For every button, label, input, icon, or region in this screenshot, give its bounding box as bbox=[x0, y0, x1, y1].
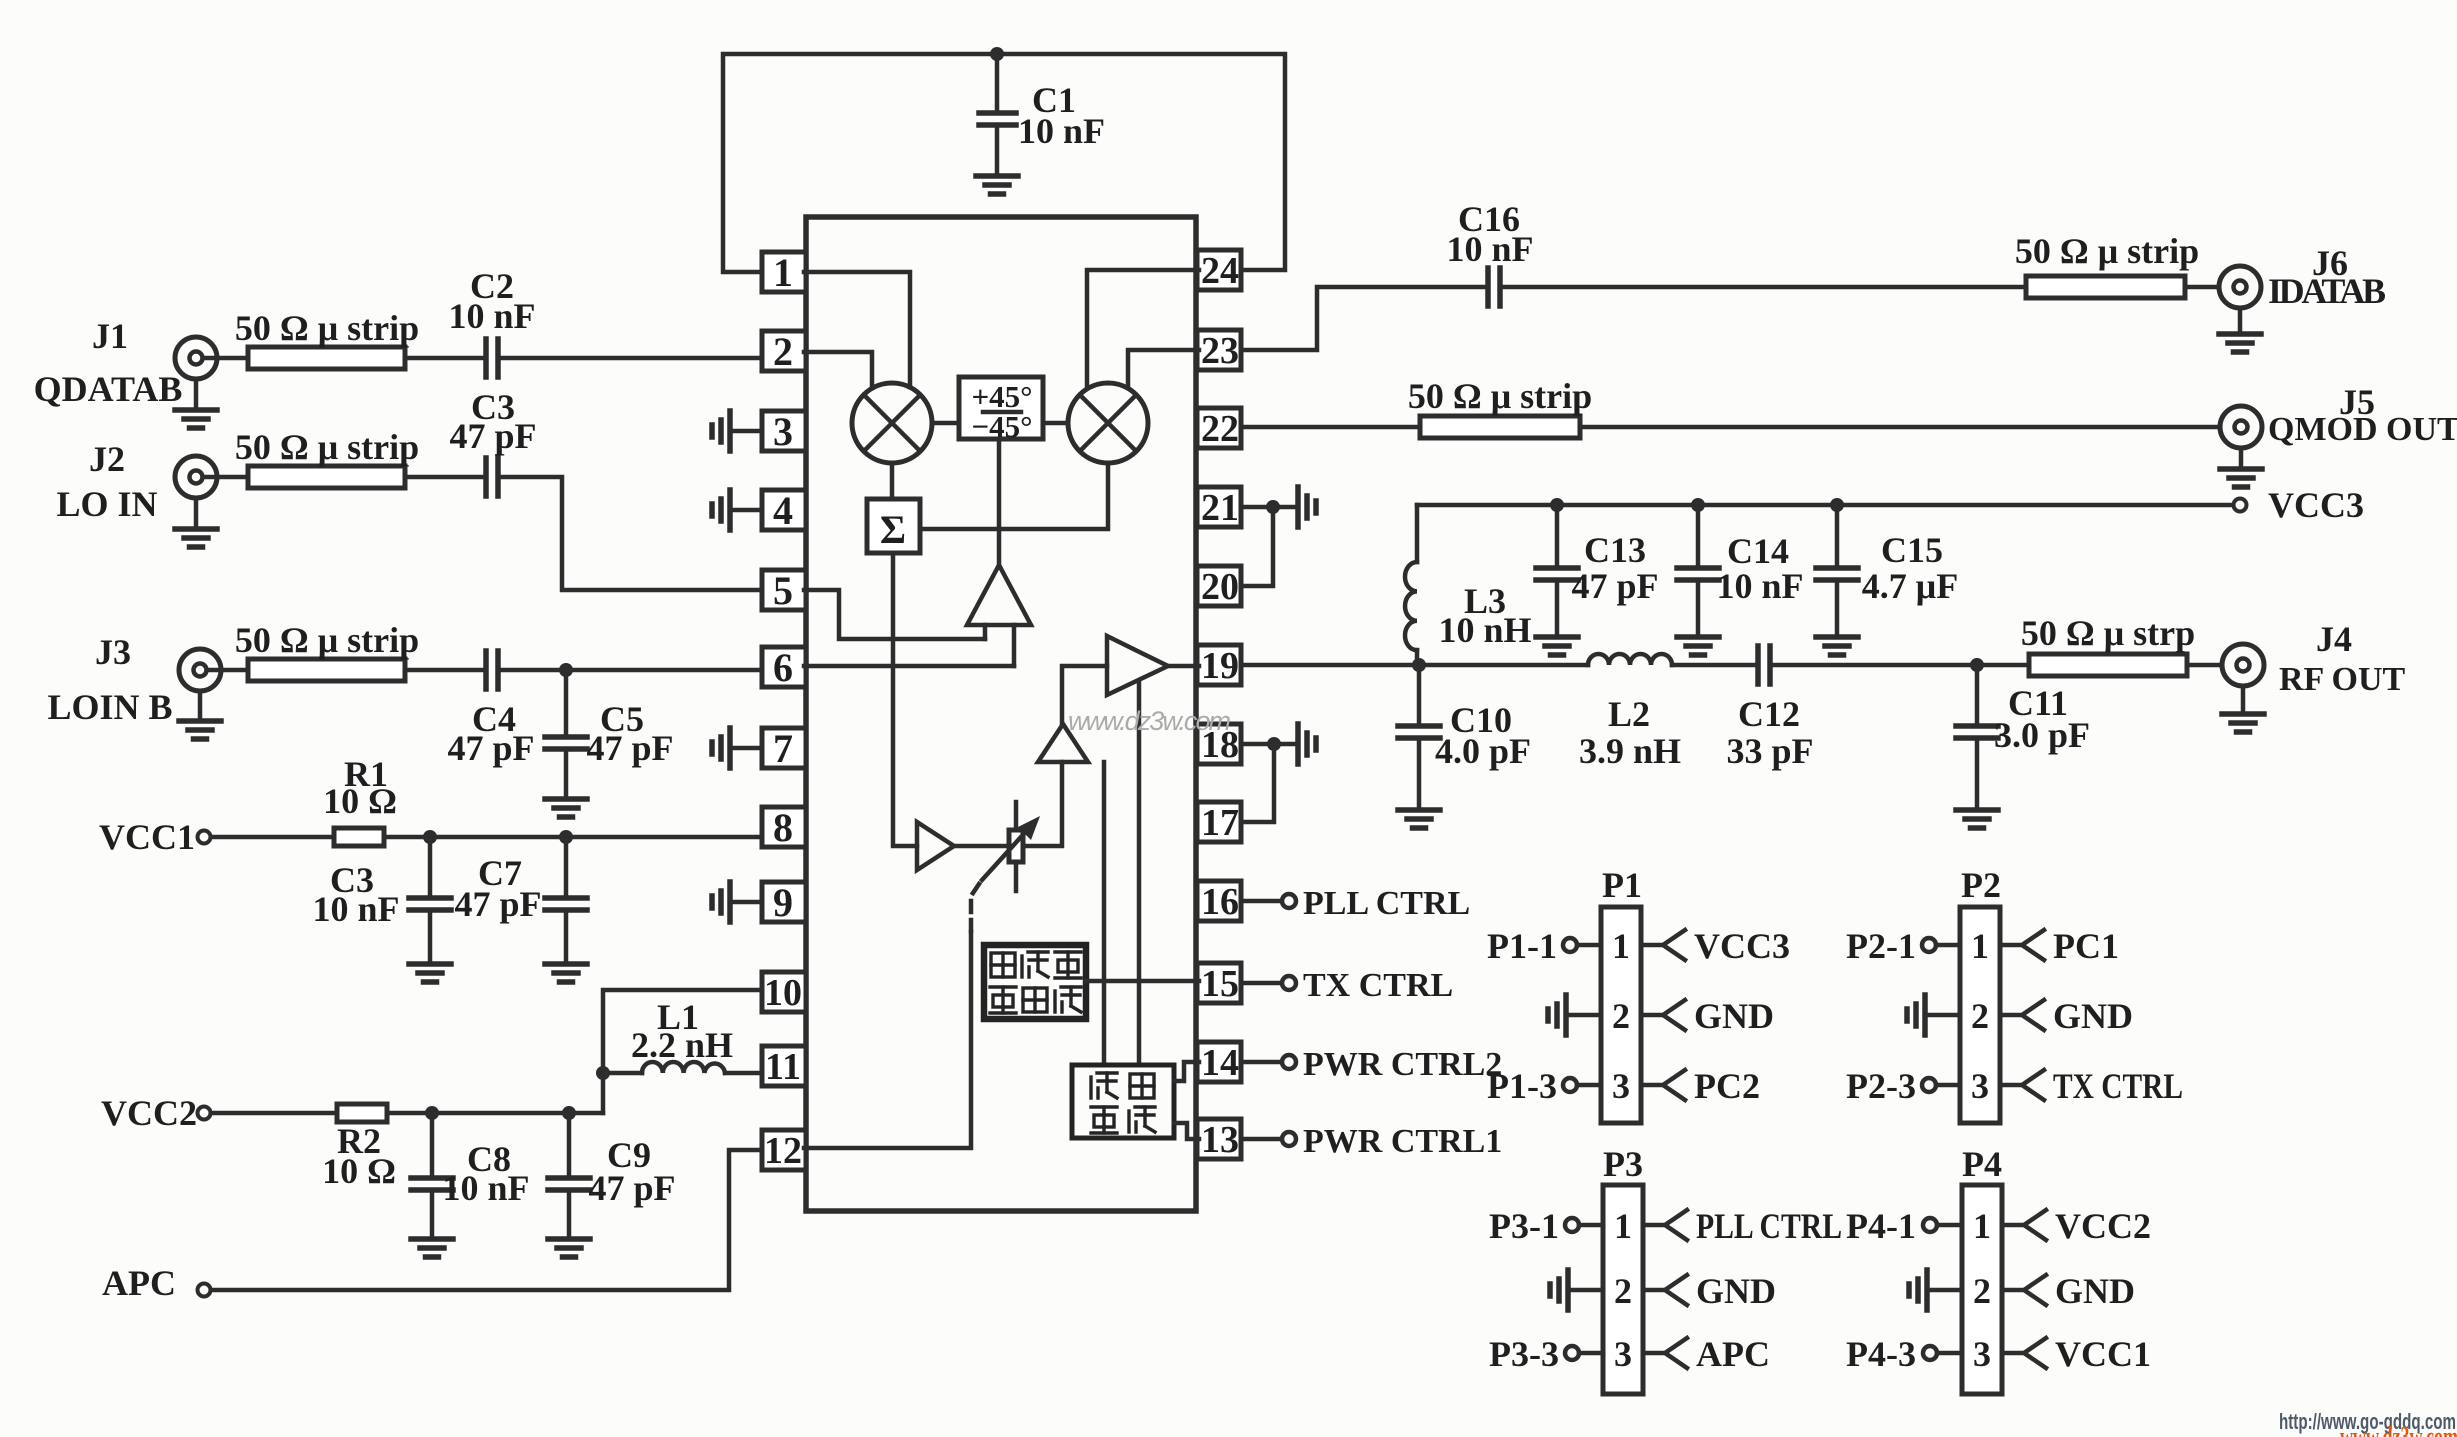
pin P4-2 GND bbox=[2002, 1288, 2024, 1293]
wire pin 1 internal bbox=[804, 272, 910, 387]
svg-text:13: 13 bbox=[1201, 1119, 1239, 1161]
pin P1-2 GND bbox=[1641, 1013, 1663, 1018]
terminal VCC3 bbox=[1417, 503, 2233, 508]
wire A4 out to pin 19 bbox=[1168, 664, 1199, 669]
svg-text:21: 21 bbox=[1201, 487, 1239, 529]
svg-text:6: 6 bbox=[773, 645, 793, 690]
ground P3-2 bbox=[1550, 1270, 1568, 1310]
pin 9 bbox=[762, 882, 806, 922]
microstrip 50ohm J2 bbox=[248, 466, 405, 488]
wire bbox=[498, 356, 762, 361]
capacitor C4 bbox=[483, 651, 489, 689]
wire pin 22 to J5 bbox=[1241, 425, 1420, 430]
capacitor C11 bbox=[1975, 665, 1980, 724]
node C11 bbox=[1970, 658, 1984, 672]
wire top supply loop bbox=[723, 54, 1285, 272]
wire mixers to phase box bbox=[932, 421, 1068, 426]
node C14 bbox=[1691, 498, 1705, 512]
svg-text:1: 1 bbox=[1973, 1206, 1991, 1246]
inductor L2 bbox=[1588, 654, 1672, 665]
svg-text:P4-1: P4-1 bbox=[1846, 1206, 1916, 1246]
svg-text:3: 3 bbox=[1971, 1066, 1989, 1106]
svg-text:50 Ω μ strip: 50 Ω μ strip bbox=[1408, 376, 1592, 416]
IC U1 body bbox=[806, 217, 1196, 1211]
node C1 top bbox=[990, 47, 1004, 61]
ground bbox=[545, 799, 587, 817]
svg-text:50 Ω μ strip: 50 Ω μ strip bbox=[2015, 231, 2199, 271]
node C15 bbox=[1830, 498, 1844, 512]
pin 17 bbox=[1197, 802, 1241, 842]
wire phase box down to amp bbox=[997, 439, 1002, 565]
wire pin 23 internal bbox=[1128, 350, 1199, 388]
pin 7 bbox=[762, 728, 806, 768]
wire pin18 to pin17 bbox=[1241, 744, 1274, 822]
svg-text:3.0 pF: 3.0 pF bbox=[1994, 715, 2090, 755]
svg-text:2: 2 bbox=[1973, 1271, 1991, 1311]
wire pin 6 internal bbox=[804, 664, 1014, 669]
svg-text:10 nF: 10 nF bbox=[448, 296, 535, 336]
svg-text:P3-3: P3-3 bbox=[1489, 1334, 1559, 1374]
wire sigma down bbox=[893, 553, 917, 846]
wire bbox=[2185, 285, 2233, 290]
wire bbox=[1580, 425, 2234, 430]
svg-text:J3: J3 bbox=[95, 632, 131, 672]
svg-text:VCC1: VCC1 bbox=[99, 817, 195, 857]
svg-text:P3-1: P3-1 bbox=[1489, 1206, 1559, 1246]
svg-text:47 pF: 47 pF bbox=[588, 1168, 675, 1208]
svg-text:3: 3 bbox=[1614, 1334, 1632, 1374]
ground bbox=[2239, 448, 2244, 467]
svg-text:50 Ω μ strp: 50 Ω μ strp bbox=[2021, 613, 2195, 653]
wire bbox=[405, 668, 486, 673]
svg-text:3: 3 bbox=[773, 409, 793, 454]
pin 18 bbox=[1197, 724, 1241, 764]
pin P1-3 PC2 bbox=[1641, 1083, 1663, 1088]
pin P4-3 VCC1 bbox=[2002, 1351, 2024, 1356]
microstrip 50ohm J1 bbox=[248, 347, 405, 369]
ground bbox=[411, 1239, 453, 1257]
ground bbox=[194, 498, 199, 527]
svg-text:14: 14 bbox=[1201, 1042, 1239, 1084]
wire power ctrl B bbox=[1137, 681, 1142, 1065]
pin 20 bbox=[1197, 566, 1241, 606]
svg-text:9: 9 bbox=[773, 880, 793, 925]
svg-text:4.7 μF: 4.7 μF bbox=[1862, 566, 1958, 606]
node C5 bbox=[559, 663, 573, 677]
svg-text:TX CTRL: TX CTRL bbox=[1303, 967, 1453, 1004]
wire bias to pin 15 bbox=[1086, 979, 1199, 984]
wire pin 2 internal bbox=[804, 352, 872, 388]
svg-text:1: 1 bbox=[1614, 1206, 1632, 1246]
svg-text:−45°: −45° bbox=[971, 409, 1032, 444]
pin P4-1 VCC2 bbox=[2002, 1223, 2024, 1228]
capacitor C9 bbox=[567, 1113, 572, 1176]
ground pin 9 bbox=[733, 900, 762, 905]
op-amp A4 (right, output) bbox=[1107, 636, 1168, 695]
svg-text:2.2 nH: 2.2 nH bbox=[631, 1025, 733, 1065]
svg-text:50 Ω μ strip: 50 Ω μ strip bbox=[235, 620, 419, 660]
capacitor C12 bbox=[1755, 646, 1761, 684]
svg-text:C12: C12 bbox=[1738, 694, 1800, 734]
svg-text:GND: GND bbox=[2055, 1271, 2135, 1311]
svg-text:3.9 nH: 3.9 nH bbox=[1579, 731, 1681, 771]
op-amp A1 (up) bbox=[967, 565, 1031, 625]
svg-text:12: 12 bbox=[764, 1130, 802, 1172]
wire bbox=[405, 356, 486, 361]
svg-text:2: 2 bbox=[1614, 1271, 1632, 1311]
svg-text:3: 3 bbox=[1973, 1334, 1991, 1374]
capacitor C1 bbox=[995, 54, 1000, 111]
svg-text:APC: APC bbox=[1696, 1334, 1770, 1374]
wire bbox=[1770, 663, 2029, 668]
summer sigma box bbox=[867, 499, 920, 553]
node pin 21 bbox=[1266, 500, 1280, 514]
pin 23 bbox=[1197, 330, 1241, 370]
svg-text:1: 1 bbox=[773, 250, 793, 295]
svg-text:11: 11 bbox=[765, 1046, 801, 1088]
svg-text:10 Ω: 10 Ω bbox=[323, 781, 397, 821]
pin 3 bbox=[762, 411, 806, 451]
svg-text:2: 2 bbox=[1612, 996, 1630, 1036]
svg-text:P4-3: P4-3 bbox=[1846, 1334, 1916, 1374]
pin P3-2 GND bbox=[1643, 1288, 1665, 1293]
svg-text:C14: C14 bbox=[1727, 531, 1789, 571]
svg-text:PLL CTRL: PLL CTRL bbox=[1303, 885, 1470, 922]
pin 8 bbox=[762, 807, 806, 847]
svg-text:VCC2: VCC2 bbox=[101, 1093, 197, 1133]
svg-text:10 Ω: 10 Ω bbox=[322, 1151, 396, 1191]
pin P1-1 VCC3 bbox=[1641, 943, 1663, 948]
wire bbox=[203, 475, 248, 480]
svg-text:47 pF: 47 pF bbox=[454, 884, 541, 924]
pin P2-2 GND bbox=[2000, 1013, 2022, 1018]
ground bbox=[1536, 637, 1578, 655]
ground bbox=[1816, 637, 1858, 655]
capacitor C2 bbox=[483, 339, 489, 377]
svg-text:10 nF: 10 nF bbox=[312, 889, 399, 929]
svg-text:3: 3 bbox=[1612, 1066, 1630, 1106]
svg-text:TX CTRL: TX CTRL bbox=[2053, 1066, 2183, 1106]
wire to pin 8 bbox=[384, 835, 762, 840]
ground bbox=[976, 176, 1018, 194]
ground bbox=[194, 379, 199, 408]
wire to pin 6 bbox=[498, 668, 762, 673]
svg-text:P2-3: P2-3 bbox=[1846, 1066, 1916, 1106]
wire APC to pin 12 bbox=[211, 1150, 762, 1290]
DC bias box bbox=[984, 945, 1086, 1019]
svg-text:www.dz3w.com: www.dz3w.com bbox=[1068, 706, 1231, 736]
pin 11 bbox=[762, 1046, 806, 1086]
svg-text:15: 15 bbox=[1201, 963, 1239, 1005]
dashed link to pin 12 bbox=[969, 884, 979, 899]
pin 16 bbox=[1197, 881, 1241, 921]
svg-text:VCC1: VCC1 bbox=[2055, 1334, 2151, 1374]
wire bbox=[207, 668, 248, 673]
svg-text:33 pF: 33 pF bbox=[1726, 731, 1813, 771]
pin 21 bbox=[1197, 487, 1241, 527]
wire power box to pin 13 bbox=[1174, 1123, 1199, 1139]
wire A3 out bbox=[1062, 666, 1107, 724]
pin 14 bbox=[1197, 1042, 1241, 1082]
wire attenuator out bbox=[1023, 762, 1062, 846]
variable attenuator bbox=[1014, 802, 1019, 891]
svg-text:GND: GND bbox=[2053, 996, 2133, 1036]
svg-text:P2-1: P2-1 bbox=[1846, 926, 1916, 966]
wire pin 5 internal bbox=[804, 590, 985, 639]
svg-text:47 pF: 47 pF bbox=[449, 416, 536, 456]
svg-text:APC: APC bbox=[102, 1263, 176, 1303]
svg-text:L2: L2 bbox=[1608, 694, 1650, 734]
connector J2 bbox=[175, 456, 217, 498]
pin 4 bbox=[762, 490, 806, 530]
ground pin 7 bbox=[733, 746, 762, 751]
pin P2-3 TX CTRL bbox=[2000, 1083, 2022, 1088]
node C8 bbox=[425, 1106, 439, 1120]
svg-text:J2: J2 bbox=[89, 439, 125, 479]
pin P3-3 APC bbox=[1643, 1351, 1665, 1356]
wire amp legs bbox=[985, 625, 1014, 666]
svg-text:PC1: PC1 bbox=[2053, 926, 2119, 966]
pin P2-1 PC1 bbox=[2000, 943, 2022, 948]
node C9 bbox=[562, 1106, 576, 1120]
svg-text:1: 1 bbox=[1612, 926, 1630, 966]
svg-text:P1: P1 bbox=[1602, 865, 1642, 905]
svg-text:GND: GND bbox=[1694, 996, 1774, 1036]
node pin 18 bbox=[1267, 737, 1281, 751]
svg-text:PC2: PC2 bbox=[1694, 1066, 1760, 1106]
node C10/L3 bbox=[1412, 658, 1426, 672]
pin 13 bbox=[1197, 1119, 1241, 1159]
ground bbox=[2241, 686, 2246, 712]
ground P4-2 bbox=[1909, 1270, 1927, 1310]
svg-text:PWR CTRL1: PWR CTRL1 bbox=[1303, 1123, 1502, 1160]
microstrip 50ohm J6 bbox=[2026, 276, 2185, 298]
svg-text:47 pF: 47 pF bbox=[1571, 566, 1658, 606]
wire bbox=[211, 835, 334, 840]
wire mixer I to sigma bbox=[890, 463, 895, 499]
svg-text:LO IN: LO IN bbox=[56, 484, 157, 524]
terminal PLL CTRL bbox=[1241, 899, 1281, 904]
svg-text:RF OUT: RF OUT bbox=[2279, 661, 2406, 698]
svg-text:LOIN B: LOIN B bbox=[47, 687, 172, 727]
svg-text:47 pF: 47 pF bbox=[447, 728, 534, 768]
ground bbox=[545, 964, 587, 982]
svg-text:4.0 pF: 4.0 pF bbox=[1435, 731, 1531, 771]
wire bbox=[1500, 285, 2026, 290]
wire power box to pin 14 bbox=[1174, 1062, 1199, 1081]
connector J4 bbox=[2222, 644, 2264, 686]
svg-text:23: 23 bbox=[1201, 330, 1239, 372]
phase shifter +45/-45 box bbox=[959, 377, 1043, 439]
pin 15 bbox=[1197, 963, 1241, 1003]
node C13 bbox=[1550, 498, 1564, 512]
ground pin 3 bbox=[733, 429, 762, 434]
capacitor C10 bbox=[1417, 665, 1422, 724]
connector J6 bbox=[2219, 266, 2261, 308]
svg-text:47 pF: 47 pF bbox=[586, 728, 673, 768]
connector J5 bbox=[2220, 406, 2262, 448]
mixer Q (right) bbox=[1068, 383, 1148, 463]
svg-text:C13: C13 bbox=[1584, 530, 1646, 570]
wire pin 21 ground bbox=[1241, 505, 1294, 510]
ground bbox=[198, 691, 203, 719]
svg-text:www.dz3w.com: www.dz3w.com bbox=[2340, 1422, 2457, 1437]
svg-text:PWR CTRL2: PWR CTRL2 bbox=[1303, 1046, 1502, 1083]
svg-text:19: 19 bbox=[1201, 645, 1239, 687]
wire pin 18 ground bbox=[1241, 742, 1294, 747]
ground bbox=[548, 1239, 590, 1257]
svg-text:VCC3: VCC3 bbox=[2268, 485, 2364, 525]
ground P1-2 bbox=[1548, 995, 1566, 1035]
wire A2 out bbox=[954, 844, 1009, 849]
inductor L3 bbox=[1415, 505, 1420, 562]
svg-text:VCC3: VCC3 bbox=[1694, 926, 1790, 966]
pin 5 bbox=[762, 570, 806, 610]
svg-text:QDATAB: QDATAB bbox=[34, 369, 183, 409]
svg-text:QMOD OUT: QMOD OUT bbox=[2268, 411, 2457, 448]
pin 22 bbox=[1197, 408, 1241, 448]
ground bbox=[409, 964, 451, 982]
microstrip 50ohm J5 bbox=[1420, 416, 1580, 438]
ground bbox=[1956, 810, 1998, 828]
svg-text:8: 8 bbox=[773, 805, 793, 850]
svg-text:PLL CTRL: PLL CTRL bbox=[1696, 1206, 1842, 1246]
svg-text:P3: P3 bbox=[1603, 1144, 1643, 1184]
pin 1 bbox=[762, 252, 806, 292]
svg-text:10 nF: 10 nF bbox=[1018, 111, 1105, 151]
wire to pin 5 bbox=[498, 477, 762, 590]
node C7 bbox=[559, 830, 573, 844]
capacitor C16 bbox=[1485, 268, 1491, 306]
wire power ctrl A bbox=[1102, 762, 1107, 1065]
wire pin 19 row bbox=[1241, 663, 1588, 668]
svg-text:2: 2 bbox=[773, 329, 793, 374]
svg-text:J4: J4 bbox=[2316, 619, 2352, 659]
capacitor C7 bbox=[564, 837, 569, 896]
svg-text:P1-3: P1-3 bbox=[1487, 1066, 1557, 1106]
svg-text:P2: P2 bbox=[1961, 865, 2001, 905]
wire sigma to mixer Q bbox=[920, 463, 1108, 529]
svg-text:GND: GND bbox=[1696, 1271, 1776, 1311]
connector J3 bbox=[179, 649, 221, 691]
svg-text:50 Ω μ strip: 50 Ω μ strip bbox=[235, 427, 419, 467]
ground bbox=[2238, 308, 2243, 332]
svg-text:VCC2: VCC2 bbox=[2055, 1206, 2151, 1246]
svg-text:10 nF: 10 nF bbox=[1446, 229, 1533, 269]
amp A2 (right) bbox=[917, 822, 954, 870]
capacitor C3 (10 nF) bbox=[428, 837, 433, 896]
capacitor C15 bbox=[1835, 505, 1840, 566]
capacitor C14 bbox=[1696, 505, 1701, 566]
pin 2 bbox=[762, 331, 806, 371]
ground pin 4 bbox=[733, 508, 762, 513]
svg-text:1: 1 bbox=[1971, 926, 1989, 966]
svg-text:5: 5 bbox=[773, 568, 793, 613]
svg-text:22: 22 bbox=[1201, 408, 1239, 450]
svg-text:2: 2 bbox=[1971, 996, 1989, 1036]
wire pin 10 bbox=[603, 990, 762, 1113]
mixer I (left) bbox=[852, 383, 932, 463]
capacitor C5 bbox=[564, 670, 569, 735]
svg-text:P4: P4 bbox=[1962, 1144, 2002, 1184]
svg-text:IDATAB: IDATAB bbox=[2268, 271, 2386, 311]
wire bbox=[405, 475, 486, 480]
svg-text:Σ: Σ bbox=[880, 507, 906, 552]
svg-text:P1-1: P1-1 bbox=[1487, 926, 1557, 966]
terminal PWR CTRL1 bbox=[1241, 1137, 1281, 1142]
ground bbox=[1677, 637, 1719, 655]
op-amp A3 (up, middle) bbox=[1038, 724, 1088, 762]
node C3b bbox=[423, 830, 437, 844]
svg-text:20: 20 bbox=[1201, 566, 1239, 608]
wire bbox=[2187, 663, 2236, 668]
inductor L1 bbox=[603, 1071, 642, 1076]
pin 24 bbox=[1197, 250, 1241, 290]
svg-text:50 Ω μ strip: 50 Ω μ strip bbox=[235, 308, 419, 348]
terminal TX CTRL bbox=[1241, 981, 1281, 986]
node L1 bbox=[596, 1066, 610, 1080]
wire pin21 to pin20 bbox=[1241, 507, 1273, 586]
connector J1 bbox=[175, 337, 217, 379]
pin P3-1 PLL CTRL bbox=[1643, 1223, 1665, 1228]
terminal PWR CTRL2 bbox=[1241, 1060, 1281, 1065]
wire bbox=[387, 1111, 603, 1116]
ground bbox=[1398, 810, 1440, 828]
svg-text:10 nF: 10 nF bbox=[1716, 566, 1803, 606]
wire pin 23 to C16 bbox=[1241, 287, 1488, 350]
power control box bbox=[1072, 1065, 1174, 1138]
svg-text:24: 24 bbox=[1201, 250, 1239, 292]
svg-text:17: 17 bbox=[1201, 802, 1239, 844]
pin 19 bbox=[1197, 645, 1241, 685]
wire bbox=[1672, 663, 1758, 668]
resistor R1 bbox=[334, 828, 384, 846]
wire pin 24 internal bbox=[1087, 270, 1199, 387]
capacitor C8 bbox=[430, 1113, 435, 1176]
capacitor C3 bbox=[483, 458, 489, 496]
microstrip 50ohm J4 bbox=[2029, 654, 2187, 676]
svg-text:J1: J1 bbox=[92, 316, 128, 356]
svg-text:10: 10 bbox=[764, 972, 802, 1014]
svg-text:16: 16 bbox=[1201, 881, 1239, 923]
ground P2-2 bbox=[1907, 995, 1925, 1035]
wire bbox=[211, 1111, 337, 1116]
resistor R2 bbox=[337, 1104, 387, 1122]
pin 6 bbox=[762, 647, 806, 687]
svg-text:10 nF: 10 nF bbox=[442, 1168, 529, 1208]
svg-text:4: 4 bbox=[773, 488, 793, 533]
pin 10 bbox=[762, 972, 806, 1012]
pin 12 bbox=[762, 1130, 806, 1170]
microstrip 50ohm J3 bbox=[248, 659, 405, 681]
svg-text:C15: C15 bbox=[1881, 530, 1943, 570]
wire bbox=[203, 356, 248, 361]
svg-text:7: 7 bbox=[773, 726, 793, 771]
svg-text:10 nH: 10 nH bbox=[1438, 610, 1531, 650]
capacitor C13 bbox=[1555, 505, 1560, 566]
